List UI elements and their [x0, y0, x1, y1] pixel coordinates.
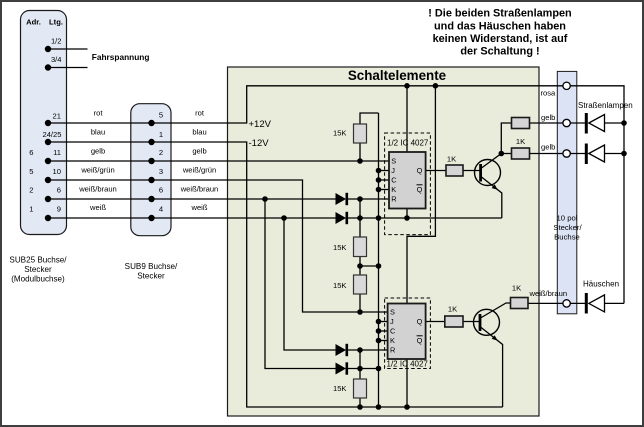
- svg-text:15K: 15K: [333, 243, 347, 252]
- pin stub K1: [379, 189, 390, 191]
- wire diode D1 cathode to R1 pin: [347, 198, 389, 200]
- svg-text:Häuschen: Häuschen: [583, 280, 619, 289]
- svg-text:gelb: gelb: [91, 146, 105, 155]
- svg-text:blau: blau: [91, 127, 105, 136]
- svg-text:Buchse: Buchse: [554, 233, 580, 242]
- svg-text:Q: Q: [417, 185, 423, 194]
- wire rot +12V rail: [48, 86, 624, 304]
- wire 15K R5 bottom to rail: [359, 398, 361, 407]
- wire weiss to diode D2: [48, 217, 336, 219]
- SUB9 caption: [125, 262, 178, 281]
- wire T1 emitter down to return row: [482, 177, 502, 218]
- svg-text:6: 6: [57, 186, 61, 195]
- svg-text:10 pol: 10 pol: [557, 214, 578, 223]
- svg-text:weiß/grün: weiß/grün: [80, 165, 114, 174]
- wire 15K R2 bottom to junction row: [359, 257, 361, 276]
- svg-text:C: C: [390, 327, 396, 336]
- svg-text:S: S: [390, 308, 395, 317]
- svg-text:1/2 IC 4027: 1/2 IC 4027: [387, 139, 429, 148]
- svg-text:der Schaltung !: der Schaltung !: [460, 46, 539, 58]
- svg-text:Schaltelemente: Schaltelemente: [348, 68, 446, 83]
- wire LED2 to right bus: [605, 153, 625, 155]
- svg-text:3/4: 3/4: [51, 55, 62, 64]
- transistor Q1: [475, 160, 501, 190]
- diode D4: [336, 362, 347, 374]
- svg-text:SUB25 Buchse/: SUB25 Buchse/: [9, 256, 67, 265]
- svg-text:3: 3: [159, 167, 163, 176]
- svg-text:Adr.: Adr.: [26, 18, 41, 27]
- svg-text:1/2: 1/2: [51, 37, 62, 46]
- wire 1K to weiss/braun strip pin and LED: [528, 302, 586, 304]
- label gelb1: [541, 113, 555, 122]
- diode D2: [336, 212, 347, 224]
- wire weiss/braun branch to diode D4: [265, 199, 336, 369]
- wire junction row to JCK bus: [360, 265, 379, 267]
- svg-text:5: 5: [159, 111, 163, 120]
- wire diode D4 cathode to bus: [347, 368, 379, 370]
- wire VDD stub top rail into IC1: [406, 86, 408, 152]
- svg-text:21: 21: [53, 111, 61, 120]
- pin stub J1: [379, 170, 390, 172]
- wire diode D3 cathode to R2 pin: [347, 349, 388, 351]
- SUB25 pin dots: [45, 46, 51, 221]
- pin stub J2: [379, 321, 388, 323]
- svg-text:15K: 15K: [333, 129, 347, 138]
- wire weiss/braun to diode D1: [48, 198, 336, 200]
- svg-text:keinen Widerstand, ist auf: keinen Widerstand, ist auf: [433, 33, 568, 45]
- svg-text:weiß/braun: weiß/braun: [180, 184, 219, 193]
- wire T1 collector to lamps node: [482, 123, 512, 168]
- IC U1 dashed outline: [385, 133, 431, 235]
- wire gelb to S pin IC1: [48, 160, 389, 162]
- svg-text:Q: Q: [417, 336, 423, 345]
- label Strassenlampen: [578, 101, 633, 110]
- junction dot LED2: [621, 151, 627, 157]
- svg-text:rot: rot: [195, 109, 205, 118]
- svg-text:10: 10: [53, 167, 61, 176]
- wire pin 3/4 Fahrspannung: [48, 67, 88, 69]
- svg-text:blau: blau: [192, 127, 206, 136]
- wire 1K gelb1 to strip and LED: [530, 122, 587, 124]
- svg-text:+12V: +12V: [249, 119, 272, 130]
- wire 15K R1 top loop to JCK bus: [360, 113, 379, 124]
- LED lamp 2: [586, 144, 604, 165]
- svg-text:R: R: [391, 195, 396, 204]
- wire weiss branch to diode D3: [284, 218, 336, 350]
- wire base resistor to T2: [463, 321, 480, 323]
- svg-text:1: 1: [159, 130, 163, 139]
- wire IC2 bottom stub to rail: [406, 359, 408, 407]
- svg-text:15K: 15K: [333, 384, 347, 393]
- wire node column D3-D4 down to 15K R5: [359, 350, 361, 379]
- svg-text:J: J: [390, 317, 394, 326]
- 10 pol connector strip: [553, 71, 582, 313]
- svg-text:24/25: 24/25: [42, 130, 61, 139]
- wire Q1 to base resistor: [426, 170, 446, 172]
- transistor Q2: [474, 309, 500, 340]
- note warning text top right: [428, 8, 571, 58]
- wire base resistor to T1: [463, 170, 481, 172]
- strip pin circle rosa: [563, 82, 570, 89]
- wire JCK bus vertical: [378, 113, 380, 407]
- wire colour labels column 2: [180, 109, 219, 213]
- wire 15K R3 bottom to S2 row: [359, 294, 361, 312]
- SUB9 connector body: [131, 104, 171, 236]
- svg-text:K: K: [390, 336, 395, 345]
- svg-text:-12V: -12V: [249, 138, 270, 149]
- svg-text:1K: 1K: [448, 305, 457, 314]
- resistor 1K base T2: [445, 305, 463, 328]
- label rosa: [541, 88, 557, 97]
- svg-text:rot: rot: [94, 109, 104, 118]
- wire 1K gelb2 to strip and LED: [530, 153, 587, 155]
- svg-text:2: 2: [29, 186, 33, 195]
- resistor 1K haeuschen: [511, 284, 529, 309]
- label gelb2: [541, 142, 555, 151]
- resistor R1 15K: [333, 124, 367, 143]
- pin label 3/4: [51, 55, 62, 64]
- svg-text:Straßenlampen: Straßenlampen: [578, 101, 633, 110]
- SUB9 pin numbers: [159, 111, 163, 214]
- IC U2 body 4027: [388, 304, 426, 360]
- label weiss/braun: [529, 289, 568, 298]
- svg-text:15K: 15K: [333, 281, 347, 290]
- wire VSS stub IC1 bottom to emitter row: [406, 209, 408, 219]
- Schaltelemente box: [228, 67, 540, 416]
- SUB25 Adr pin numbers: [29, 148, 33, 214]
- wire pin 1/2 Fahrspannung: [48, 48, 88, 50]
- svg-text:Stecker: Stecker: [137, 272, 165, 281]
- svg-text:11: 11: [53, 148, 61, 157]
- svg-text:(Modulbuchse): (Modulbuchse): [11, 275, 65, 284]
- wire Q2 to base resistor: [426, 321, 445, 323]
- wire colour labels column 1: [78, 109, 117, 213]
- wire 15K R1 bottom to S row: [359, 143, 361, 161]
- svg-text:2: 2: [159, 148, 163, 157]
- wire LED3 to right bus corner: [605, 302, 625, 304]
- svg-text:gelb: gelb: [192, 146, 206, 155]
- resistor R3 15K: [333, 275, 367, 294]
- svg-text:Stecker/: Stecker/: [553, 223, 582, 232]
- svg-text:und das Häuschen haben: und das Häuschen haben: [434, 20, 566, 32]
- pin label 1/2: [51, 37, 62, 46]
- IC U2 label: [387, 359, 429, 368]
- svg-text:C: C: [391, 176, 397, 185]
- label Fahrspannung: [92, 52, 150, 62]
- wire blau -12V rail: [48, 142, 503, 407]
- svg-text:rosa: rosa: [541, 88, 557, 97]
- wire node column D1-D2 down to 15K R2: [359, 199, 361, 237]
- resistor 1K gelb1: [512, 118, 530, 129]
- wire weiss/gruen to S pin IC2: [48, 180, 388, 312]
- svg-text:K: K: [391, 185, 396, 194]
- svg-text:9: 9: [57, 205, 61, 214]
- svg-text:! Die beiden Straßenlampen: ! Die beiden Straßenlampen: [428, 8, 571, 20]
- svg-text:Fahrspannung: Fahrspannung: [92, 52, 150, 62]
- svg-text:1K: 1K: [512, 284, 521, 293]
- svg-text:1K: 1K: [447, 155, 456, 164]
- strip pin circle weiss/braun: [563, 300, 570, 307]
- wire collector node to 1K gelb2: [501, 153, 511, 155]
- strip pin circle gelb2: [563, 150, 570, 157]
- svg-text:6: 6: [29, 148, 33, 157]
- svg-text:weiß/grün: weiß/grün: [182, 165, 216, 174]
- wire emitter return row: [347, 217, 502, 219]
- label -12V: [249, 138, 270, 149]
- pin stub K2: [379, 340, 388, 342]
- wire supply jog top rail to IC2: [407, 86, 435, 304]
- resistor 1K base T1: [446, 155, 463, 177]
- diode D3: [336, 344, 347, 356]
- IC U2 dashed outline: [385, 298, 431, 369]
- LED haeuschen: [586, 293, 604, 314]
- label Haeuschen: [583, 280, 619, 289]
- svg-text:gelb: gelb: [541, 142, 555, 151]
- IC U1 body 4027: [389, 152, 426, 209]
- svg-text:1/2 IC 4027: 1/2 IC 4027: [387, 359, 429, 368]
- svg-text:SUB9 Buchse/: SUB9 Buchse/: [125, 262, 178, 271]
- SUB25 caption: [9, 256, 67, 284]
- svg-text:weiß/braun: weiß/braun: [529, 289, 568, 298]
- resistor R5 15K: [333, 379, 367, 398]
- pin stub C2: [379, 330, 388, 332]
- svg-text:R: R: [390, 346, 395, 355]
- svg-text:Ltg.: Ltg.: [49, 18, 63, 27]
- wire T2 collector to 1K: [481, 303, 511, 318]
- svg-text:4: 4: [159, 205, 163, 214]
- svg-text:Q: Q: [417, 317, 423, 326]
- svg-text:Q: Q: [417, 166, 423, 175]
- svg-text:1K: 1K: [516, 137, 525, 146]
- label +12V: [249, 119, 272, 130]
- svg-text:weiß: weiß: [190, 203, 207, 212]
- SUB25 connector body: [21, 11, 67, 235]
- strip pin circle gelb1: [563, 119, 570, 126]
- svg-text:weiß: weiß: [89, 203, 106, 212]
- svg-text:1: 1: [29, 205, 33, 214]
- diode D1: [336, 193, 347, 205]
- svg-text:6: 6: [159, 186, 163, 195]
- LED lamp 1: [586, 113, 604, 134]
- resistor 1K gelb2: [512, 137, 530, 159]
- svg-text:J: J: [391, 166, 395, 175]
- svg-text:Stecker: Stecker: [24, 265, 52, 274]
- SUB9 pin dots: [148, 120, 154, 221]
- svg-text:5: 5: [29, 167, 33, 176]
- wire T2 emitter to rail end: [481, 327, 503, 407]
- wire LED1 to right bus: [605, 122, 625, 124]
- junction dot LED1: [621, 120, 627, 126]
- svg-text:weiß/braun: weiß/braun: [78, 184, 117, 193]
- svg-text:S: S: [391, 157, 396, 166]
- SUB25 Ltg pin numbers: [42, 111, 61, 213]
- resistor R2 15K: [333, 237, 367, 257]
- svg-text:gelb: gelb: [541, 113, 555, 122]
- pin stub C1: [379, 179, 390, 181]
